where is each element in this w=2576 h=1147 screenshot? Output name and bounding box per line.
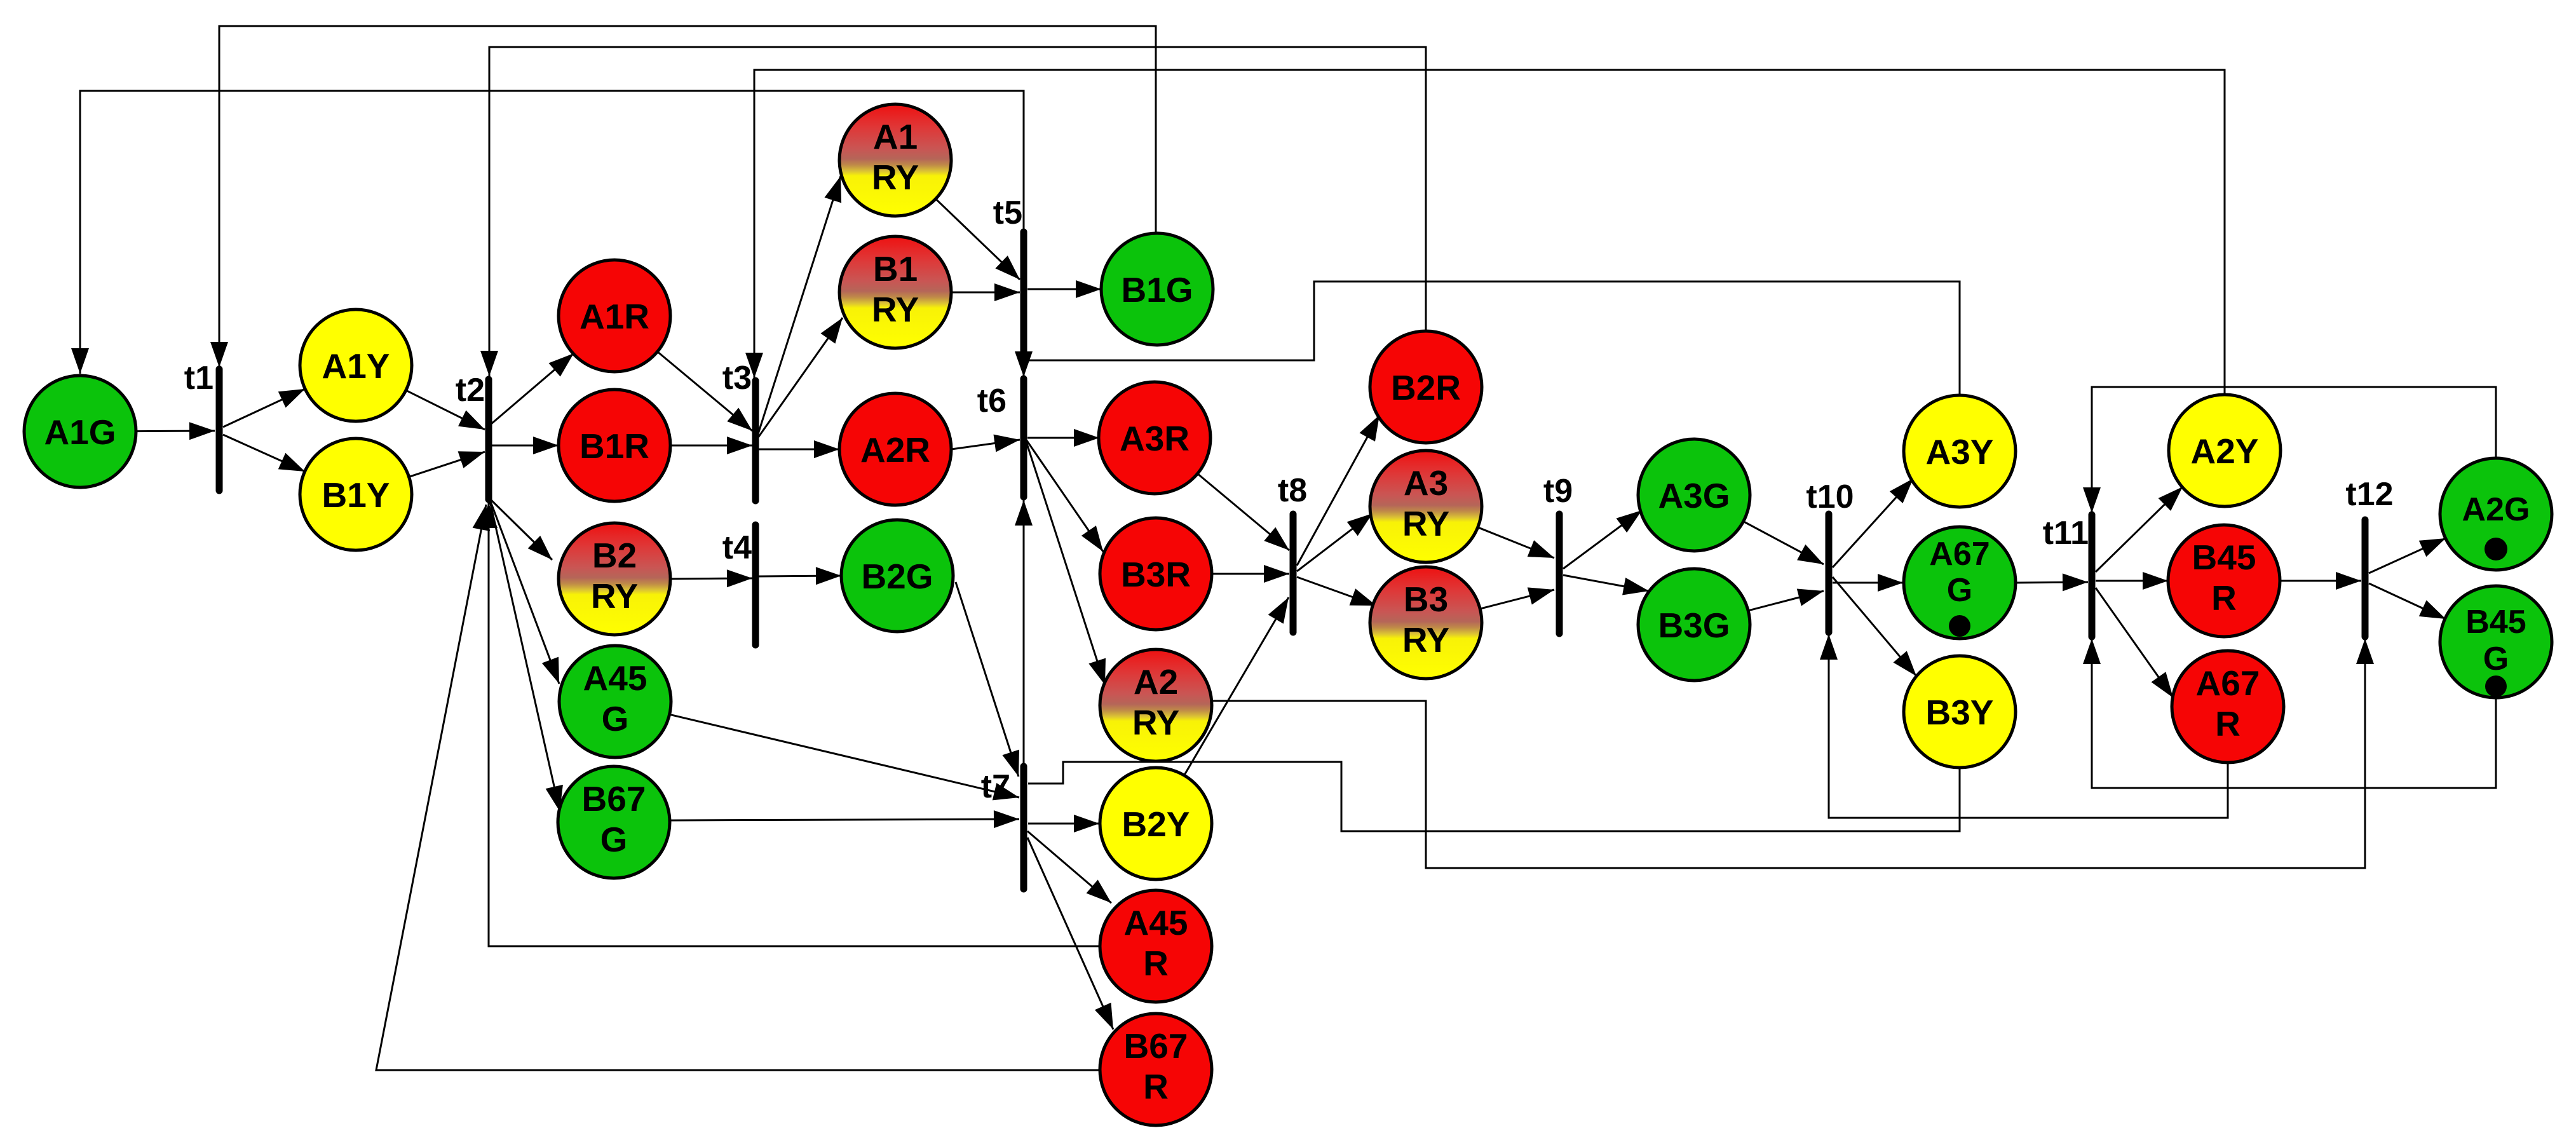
svg-text:A67: A67 bbox=[2196, 663, 2260, 703]
arc t5 to B1G bbox=[1027, 280, 1101, 298]
place A1Y bbox=[300, 309, 412, 421]
place B1RY bbox=[839, 236, 951, 348]
place B45G bbox=[2440, 586, 2552, 698]
svg-text:B3R: B3R bbox=[1121, 555, 1191, 594]
place A45G bbox=[559, 646, 671, 757]
svg-text:A2: A2 bbox=[1134, 662, 1178, 702]
arc B3RY to t9 bbox=[1480, 587, 1554, 609]
arc t11 to A67R bbox=[2096, 588, 2173, 698]
place B45R bbox=[2168, 525, 2280, 637]
arc B45R to t12 bbox=[2280, 572, 2361, 590]
arc B1Y to t2 bbox=[409, 451, 485, 477]
arc t11 to A2Y bbox=[2096, 487, 2183, 572]
place B1G bbox=[1101, 233, 1213, 345]
arc t2 to A45G bbox=[489, 498, 559, 684]
arc A1R to t3 bbox=[658, 351, 752, 431]
place A1G bbox=[24, 376, 136, 487]
arc A2RY to t12 (feedback wire) bbox=[1212, 639, 2374, 868]
svg-text:t5: t5 bbox=[993, 194, 1022, 231]
arc A1Y to t2 bbox=[406, 390, 485, 430]
arc t3 to B1RY bbox=[757, 318, 843, 438]
arc A45G to t7 bbox=[670, 714, 1019, 800]
svg-text:A67: A67 bbox=[1929, 536, 1990, 573]
place B2RY bbox=[559, 523, 670, 635]
transition t11 bbox=[2043, 515, 2092, 637]
svg-text:A3R: A3R bbox=[1120, 419, 1190, 458]
arc t12 to A2G bbox=[2369, 538, 2446, 573]
arc A3R to t8 bbox=[1198, 473, 1289, 550]
arc B2G to t7 bbox=[956, 582, 1019, 777]
arc t7 to A45R bbox=[1027, 831, 1111, 903]
transition t10 bbox=[1806, 478, 1854, 632]
svg-text:RY: RY bbox=[591, 576, 638, 616]
svg-text:A2Y: A2Y bbox=[2191, 431, 2259, 471]
svg-text:t7: t7 bbox=[981, 768, 1010, 805]
svg-text:R: R bbox=[2215, 704, 2240, 743]
arc B67R to t2 (feedback wire) bbox=[376, 505, 1101, 1070]
svg-text:B67: B67 bbox=[582, 779, 646, 818]
place B1R bbox=[559, 390, 670, 501]
arc A1G to t1 bbox=[136, 422, 215, 440]
svg-text:t1: t1 bbox=[184, 360, 214, 397]
arc t7 to B67R bbox=[1027, 838, 1113, 1029]
arc B3G to t10 bbox=[1748, 589, 1824, 611]
svg-text:B67: B67 bbox=[1124, 1026, 1188, 1066]
arc t6 to B3R bbox=[1026, 440, 1103, 552]
arc B1R to t3 bbox=[670, 437, 752, 454]
arc B2RY to t4 bbox=[670, 569, 752, 587]
arc t9 to A3G bbox=[1563, 510, 1642, 569]
arc t3 to A2R bbox=[759, 440, 839, 458]
arc t9 to B3G bbox=[1563, 575, 1649, 595]
place B2G bbox=[841, 520, 953, 632]
arc t6 to A3R bbox=[1027, 429, 1099, 447]
svg-text:B1: B1 bbox=[873, 249, 918, 288]
arc A67G to t11 bbox=[2016, 573, 2088, 591]
arc t2 to B67G bbox=[489, 498, 563, 811]
place A45R bbox=[1100, 890, 1212, 1002]
svg-text:t8: t8 bbox=[1278, 472, 1307, 509]
arc t8 to B2R bbox=[1297, 415, 1380, 566]
arc t10 to B3Y bbox=[1833, 577, 1916, 676]
arc A45R to t2 (feedback wire) bbox=[480, 503, 1101, 946]
arc t10 to A67G bbox=[1833, 574, 1903, 592]
svg-text:A3Y: A3Y bbox=[1926, 432, 1994, 472]
svg-text:B3Y: B3Y bbox=[1926, 693, 1994, 732]
svg-text:RY: RY bbox=[1402, 504, 1449, 543]
place A1R bbox=[559, 260, 670, 372]
svg-text:G: G bbox=[1947, 572, 1972, 609]
place B3RY bbox=[1370, 567, 1482, 679]
svg-text:B1G: B1G bbox=[1121, 270, 1193, 309]
place A67R bbox=[2172, 651, 2284, 763]
arc A2Y to t3 (feedback wire) bbox=[745, 70, 2225, 396]
svg-text:t6: t6 bbox=[977, 383, 1007, 419]
place B67G bbox=[558, 766, 670, 878]
arc t1 to A1Y bbox=[223, 389, 305, 427]
arc t3 to A1RY bbox=[757, 176, 841, 436]
place B2Y bbox=[1100, 768, 1212, 879]
svg-text:A1Y: A1Y bbox=[322, 346, 390, 386]
svg-text:t2: t2 bbox=[456, 372, 485, 409]
svg-text:B3G: B3G bbox=[1658, 606, 1730, 645]
svg-text:G: G bbox=[2483, 641, 2509, 677]
transition t4 bbox=[722, 525, 756, 645]
svg-text:B1Y: B1Y bbox=[322, 475, 390, 515]
arc t2 to B1R bbox=[491, 437, 559, 454]
svg-text:A45: A45 bbox=[583, 658, 647, 698]
transition t1 bbox=[184, 360, 219, 491]
svg-text:A1R: A1R bbox=[580, 297, 649, 336]
svg-text:B45: B45 bbox=[2465, 604, 2526, 641]
place A2R bbox=[839, 393, 951, 505]
place A3RY bbox=[1370, 451, 1482, 562]
transition t9 bbox=[1543, 473, 1573, 634]
arc A3RY to t9 bbox=[1478, 527, 1554, 558]
arc t2 to B2RY bbox=[489, 498, 552, 560]
svg-text:R: R bbox=[1143, 944, 1169, 983]
place A67G bbox=[1904, 527, 2016, 639]
svg-text:G: G bbox=[600, 820, 628, 859]
place A3G bbox=[1638, 439, 1750, 551]
svg-text:R: R bbox=[2211, 578, 2237, 618]
svg-text:RY: RY bbox=[1132, 703, 1179, 742]
arc t5 to A1G (feedback wire) bbox=[71, 91, 1024, 374]
svg-text:t11: t11 bbox=[2043, 515, 2089, 552]
arc t6 to A2RY bbox=[1026, 442, 1106, 685]
arc t11 to B45R bbox=[2096, 572, 2168, 590]
svg-text:A3: A3 bbox=[1404, 463, 1448, 503]
place B3Y bbox=[1904, 656, 2016, 768]
svg-text:A1: A1 bbox=[873, 117, 918, 156]
transition t3 bbox=[722, 360, 756, 501]
svg-text:RY: RY bbox=[1402, 620, 1449, 660]
arc B3Y to t7 (feedback wire) bbox=[1028, 762, 1960, 831]
arc A3G to t10 bbox=[1744, 522, 1824, 565]
arc t10 to A3Y bbox=[1833, 478, 1913, 567]
arc B1RY to t5 bbox=[951, 283, 1020, 301]
svg-text:RY: RY bbox=[872, 158, 919, 197]
arc t2 to A1R bbox=[491, 353, 574, 424]
svg-text:t12: t12 bbox=[2345, 476, 2393, 513]
svg-text:t9: t9 bbox=[1543, 473, 1573, 510]
transition t6 bbox=[977, 379, 1024, 497]
place A3Y bbox=[1904, 395, 2016, 507]
place A2G bbox=[2440, 458, 2552, 570]
place B67R bbox=[1100, 1014, 1212, 1125]
arc B2R to t2 (feedback wire) bbox=[480, 47, 1426, 376]
svg-text:A45: A45 bbox=[1124, 903, 1188, 942]
svg-text:RY: RY bbox=[872, 290, 919, 329]
place B1Y bbox=[300, 438, 412, 550]
svg-text:B2G: B2G bbox=[861, 557, 933, 596]
arc B2Y to t8 bbox=[1184, 597, 1289, 775]
arc t4 to B2G bbox=[759, 567, 841, 585]
place B3G bbox=[1638, 569, 1750, 681]
transition t12 bbox=[2345, 476, 2393, 637]
arc B1G to t1 (feedback wire) bbox=[210, 26, 1156, 367]
svg-text:A1G: A1G bbox=[44, 412, 116, 452]
svg-text:B45: B45 bbox=[2192, 538, 2256, 577]
arc t8 to A3RY bbox=[1297, 513, 1373, 571]
arc B67G to t7 bbox=[670, 810, 1019, 828]
arc A2G to t11 (feedback wire) bbox=[2083, 387, 2496, 513]
svg-text:A3G: A3G bbox=[1658, 476, 1730, 515]
arc t12 to B45G bbox=[2369, 583, 2446, 619]
svg-text:B2R: B2R bbox=[1391, 368, 1461, 407]
svg-text:B2: B2 bbox=[592, 536, 637, 575]
arc A2R to t6 bbox=[951, 435, 1020, 452]
svg-text:t10: t10 bbox=[1806, 478, 1854, 515]
place A2RY bbox=[1100, 649, 1212, 761]
arc t7-line to t6 (vertical wire) bbox=[1015, 500, 1033, 766]
arc t1 to B1Y bbox=[223, 435, 305, 472]
arc B3R to t8 bbox=[1212, 565, 1289, 583]
arc t8 to B3RY bbox=[1297, 577, 1376, 606]
svg-text:A2G: A2G bbox=[2462, 491, 2530, 528]
arc A67R to t10 (feedback wire) bbox=[1820, 634, 2228, 818]
place A3R bbox=[1099, 382, 1210, 494]
svg-text:t3: t3 bbox=[722, 360, 752, 397]
arc B45G to t11 (feedback wire) bbox=[2083, 639, 2496, 788]
transition t2 bbox=[456, 372, 489, 499]
transition t7 bbox=[981, 766, 1024, 889]
svg-text:B2Y: B2Y bbox=[1122, 804, 1190, 844]
svg-text:G: G bbox=[602, 699, 629, 738]
svg-text:t4: t4 bbox=[722, 529, 752, 566]
place A1RY bbox=[839, 104, 951, 216]
place A2Y bbox=[2169, 395, 2281, 506]
transition t8 bbox=[1278, 472, 1307, 632]
arc t7 to B2Y bbox=[1028, 815, 1099, 832]
svg-text:R: R bbox=[1143, 1067, 1169, 1106]
arc A1RY to t5 bbox=[936, 199, 1020, 280]
arc A3Y to t6 (feedback wire) bbox=[1015, 282, 1960, 396]
svg-text:B1R: B1R bbox=[580, 426, 649, 466]
transition t5 bbox=[993, 194, 1024, 351]
place B3R bbox=[1100, 518, 1212, 630]
place B2R bbox=[1370, 331, 1482, 443]
svg-text:B3: B3 bbox=[1404, 580, 1448, 619]
svg-text:A2R: A2R bbox=[860, 430, 930, 470]
